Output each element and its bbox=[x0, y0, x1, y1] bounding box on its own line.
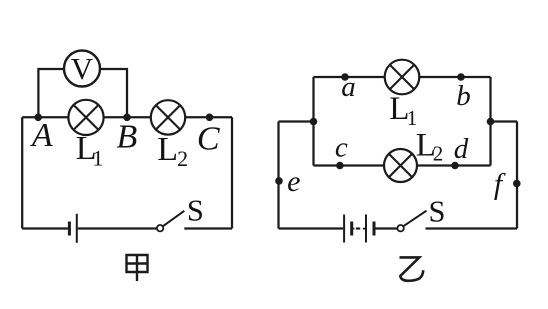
battery pack (yi): middle dash link bbox=[356, 228, 360, 230]
node e dot bbox=[275, 177, 283, 185]
voltmeter U1 circle bbox=[64, 51, 100, 87]
node a dot bbox=[341, 73, 349, 81]
svg-text:2: 2 bbox=[433, 142, 444, 166]
switch S (yi) bbox=[397, 211, 426, 232]
wire: yi right stub bbox=[491, 120, 518, 122]
svg-text:b: b bbox=[456, 80, 471, 112]
switch S (jia) bbox=[157, 211, 184, 232]
wire: jia battery to switch segment bbox=[78, 227, 157, 229]
battery cell (jia): long positive plate bbox=[76, 214, 78, 243]
wire: yi outer right rail bbox=[516, 122, 518, 229]
wire: yi inner left vertical bbox=[312, 77, 314, 166]
label jia (Chinese character) bbox=[127, 255, 148, 281]
wire: yi top branch bbox=[314, 76, 491, 78]
battery pack (yi): cell2 short plate bbox=[373, 222, 376, 236]
svg-text:1: 1 bbox=[407, 106, 418, 130]
svg-text:1: 1 bbox=[92, 146, 103, 171]
battery pack (yi): cell1 short plate bbox=[350, 222, 353, 236]
svg-text:e: e bbox=[287, 165, 300, 198]
wire: yi switch to right rail segment bbox=[426, 227, 518, 229]
svg-text:V: V bbox=[71, 51, 94, 86]
svg-text:d: d bbox=[454, 133, 469, 165]
svg-text:f: f bbox=[494, 168, 506, 201]
node c dot bbox=[336, 162, 344, 170]
junction dot right (branch join) bbox=[487, 118, 495, 126]
svg-text:S: S bbox=[429, 195, 446, 229]
wire: jia left rail bbox=[21, 117, 23, 228]
node B dot bbox=[123, 114, 131, 122]
wire: voltmeter parallel loop bbox=[38, 69, 127, 117]
label L2 (yi) bbox=[416, 128, 444, 166]
wire: jia bottom left segment to battery bbox=[22, 227, 68, 229]
lamp L1 (yi) bbox=[385, 60, 420, 95]
lamp L2 (jia) bbox=[151, 100, 185, 134]
battery pack (yi): cell2 plate nub bbox=[363, 228, 366, 230]
wire: jia right rail bbox=[231, 117, 233, 228]
lamp L1 (jia) bbox=[68, 100, 103, 135]
battery cell (jia): short negative plate bbox=[68, 222, 71, 236]
wire: yi left stub bbox=[279, 120, 314, 122]
label L2 (jia) bbox=[157, 131, 188, 171]
svg-text:c: c bbox=[335, 131, 348, 163]
node b dot bbox=[457, 73, 465, 81]
svg-text:2: 2 bbox=[177, 146, 188, 171]
label yi (Chinese character) bbox=[400, 257, 424, 280]
wire: yi battery to switch segment bbox=[376, 227, 398, 229]
lamp L2 (yi) bbox=[384, 149, 417, 182]
svg-text:S: S bbox=[187, 194, 204, 228]
svg-text:A: A bbox=[30, 117, 53, 154]
node f dot bbox=[513, 180, 521, 188]
wire: yi bottom branch bbox=[314, 164, 491, 166]
battery pack (yi): cell2 long plate bbox=[365, 215, 367, 243]
node C dot bbox=[206, 114, 214, 122]
wire: jia top wire A-B-C bbox=[22, 116, 232, 118]
svg-text:C: C bbox=[197, 121, 220, 158]
wire: yi outer left rail bbox=[277, 122, 279, 229]
svg-text:B: B bbox=[117, 118, 138, 155]
junction dot left (branch join) bbox=[310, 118, 318, 126]
wire: yi inner right vertical bbox=[489, 77, 491, 166]
node A dot bbox=[34, 114, 42, 122]
wire: jia switch to right rail segment bbox=[184, 227, 232, 229]
svg-text:a: a bbox=[341, 71, 356, 103]
battery pack (yi): cell1 long plate bbox=[343, 215, 345, 243]
battery pack (yi): cell1 plate nub bbox=[352, 228, 355, 230]
node d dot bbox=[451, 162, 459, 170]
wire: yi bottom left segment to battery bbox=[279, 227, 344, 229]
label L1 (yi) bbox=[389, 91, 417, 130]
label L1 (jia) bbox=[76, 130, 104, 170]
svg-text:L: L bbox=[157, 131, 178, 168]
